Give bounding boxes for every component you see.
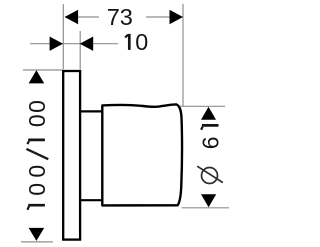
svg-text:6: 6 (197, 136, 223, 149)
svg-text:73: 73 (107, 4, 133, 30)
svg-text:0: 0 (135, 29, 148, 55)
